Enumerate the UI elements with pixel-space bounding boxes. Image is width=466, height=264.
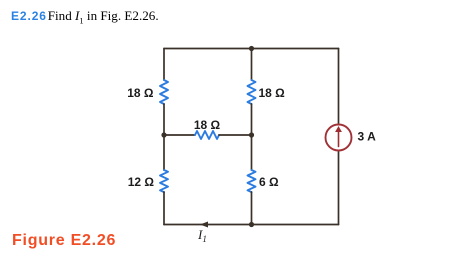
wire left branch upper lead <box>163 49 165 81</box>
wire left branch lower lead <box>163 135 165 170</box>
resistor R 18ohm middle <box>248 80 256 104</box>
resistor R 18ohm left <box>160 80 168 104</box>
svg-text:18 Ω: 18 Ω <box>194 118 221 132</box>
wire middle branch lower lead <box>251 135 253 170</box>
wire right branch upper <box>338 49 340 125</box>
wire middle horizontal right lead <box>219 134 252 136</box>
label 3 A <box>358 130 377 144</box>
wire bottom horizontal <box>164 224 339 226</box>
junction node middle-right <box>249 132 254 137</box>
label 18 ohm middle <box>259 86 286 100</box>
label 12 ohm <box>128 175 155 189</box>
wire middle branch middle lead <box>251 104 253 135</box>
wire middle branch upper lead <box>251 49 253 81</box>
svg-text:I1: I1 <box>197 227 207 244</box>
label 18 ohm horizontal <box>194 118 221 132</box>
svg-text:3 A: 3 A <box>358 130 377 144</box>
wire left branch middle lead <box>163 104 165 135</box>
exercise title E2.26 <box>11 8 159 26</box>
wire top horizontal <box>164 48 339 50</box>
label I1 <box>197 227 207 244</box>
svg-text:6 Ω: 6 Ω <box>259 175 279 189</box>
current arrow I1 on bottom wire <box>200 222 208 228</box>
wire middle branch bottom lead <box>251 192 253 225</box>
wire right branch lower <box>338 151 340 225</box>
junction node top middle <box>249 46 254 51</box>
svg-text:18 Ω: 18 Ω <box>127 86 154 100</box>
resistor R 12ohm <box>160 170 168 192</box>
current source 3A <box>326 125 352 151</box>
svg-text:12 Ω: 12 Ω <box>128 175 155 189</box>
label 6 ohm <box>259 175 279 189</box>
wire left branch bottom lead <box>163 192 165 225</box>
resistor R 18ohm horizontal <box>195 131 219 139</box>
figure caption <box>12 233 116 249</box>
junction node middle-left <box>161 132 166 137</box>
wire middle horizontal left lead <box>164 134 195 136</box>
label 18 ohm left <box>127 86 154 100</box>
resistor R 6ohm <box>248 170 256 192</box>
junction node bottom middle <box>249 222 254 227</box>
svg-text:18 Ω: 18 Ω <box>259 86 286 100</box>
